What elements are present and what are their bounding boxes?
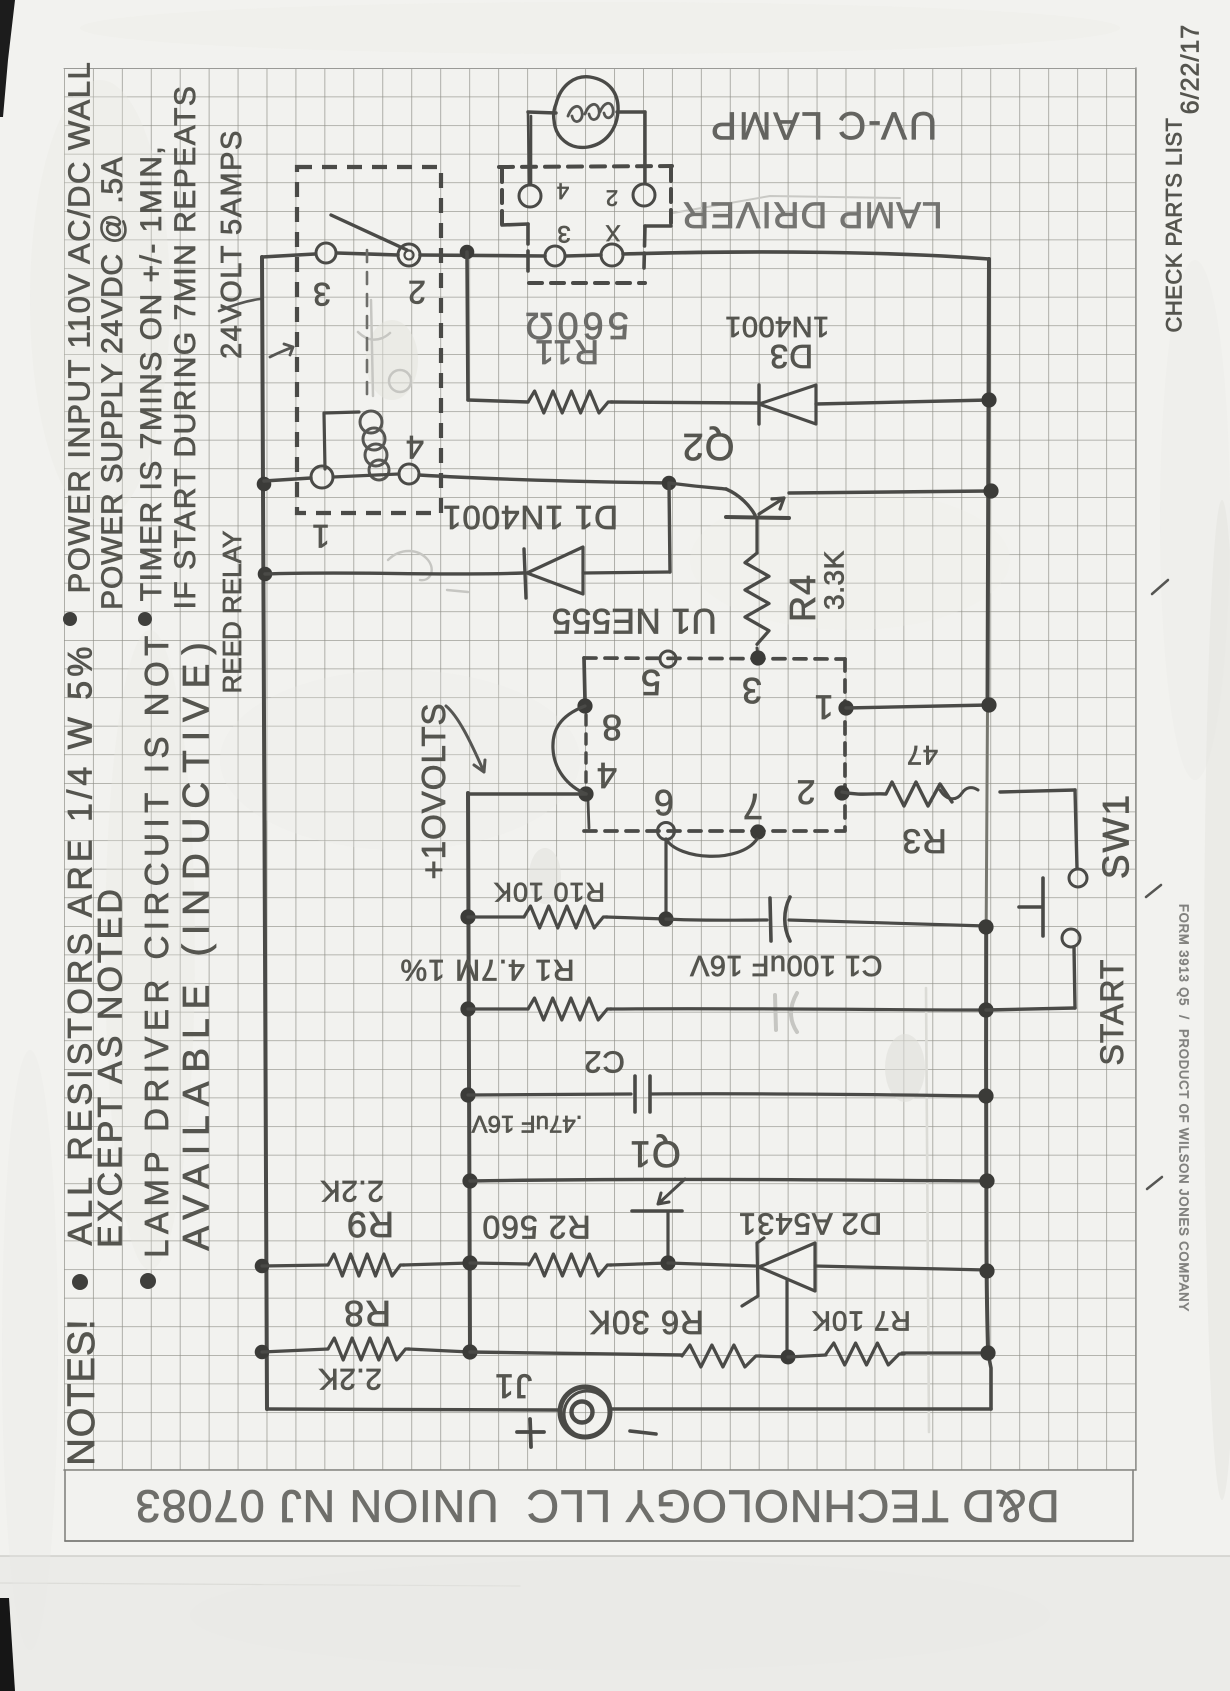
wire right rail vertical middle xyxy=(986,708,987,922)
svg-text:2.2K: 2.2K xyxy=(320,1174,384,1207)
svg-text:IF START DURING 7MIN REPEATS: IF START DURING 7MIN REPEATS xyxy=(169,85,202,610)
lamp driver box bottom edge xyxy=(529,281,645,285)
svg-text:R1 4.7M 1%: R1 4.7M 1% xyxy=(399,953,574,986)
wire D1 riser xyxy=(669,483,670,572)
diode D1 cathode bar xyxy=(524,549,526,598)
wire Q2 to R4 xyxy=(755,519,758,553)
lamp driver box top edge xyxy=(499,166,672,167)
wire top rail segment b xyxy=(337,253,398,255)
transistor Q2 collector curve xyxy=(726,489,755,515)
IC U1 box top edge xyxy=(584,658,845,659)
IC U1 box left edge upper xyxy=(584,658,585,700)
junction dot C1 row xyxy=(658,911,673,926)
reed relay coil bracket xyxy=(324,412,359,469)
wire J1 row right xyxy=(611,1407,991,1410)
wire +10V corner to 555 xyxy=(468,792,586,796)
note bullet power input xyxy=(63,612,77,626)
wire D3 to right rail xyxy=(816,400,989,404)
resistor R6 zigzag xyxy=(682,1345,761,1367)
svg-text:X: X xyxy=(605,221,620,246)
reed relay coil pin 4 circle xyxy=(399,464,419,484)
svg-text:Q2: Q2 xyxy=(682,425,735,467)
reed relay contact 2 circle xyxy=(398,244,420,266)
svg-text:4: 4 xyxy=(406,429,424,465)
IC U1 pin 5 circle xyxy=(660,651,676,667)
lamp driver box right step xyxy=(645,224,671,228)
junction dot top mid rail xyxy=(460,245,475,260)
svg-text:AVAILABLE (INDUCTIVE): AVAILABLE (INDUCTIVE) xyxy=(176,633,217,1250)
wire C2 to right rail xyxy=(650,1094,986,1096)
capacitor C2 left plate xyxy=(633,1076,637,1112)
svg-text:C1 100uF 16V: C1 100uF 16V xyxy=(689,949,882,981)
connector J1 inner circle xyxy=(572,1402,593,1423)
IC U1 box left edge lower xyxy=(588,801,589,828)
wire R8 lead xyxy=(262,1349,328,1352)
svg-text:R10 10K: R10 10K xyxy=(493,877,605,907)
svg-text:8: 8 xyxy=(602,707,622,748)
resistor R2 zigzag xyxy=(529,1254,612,1276)
junction dot D2 ref node xyxy=(781,1350,796,1365)
svg-text:POWER SUPPLY 24VDC @ .5A: POWER SUPPLY 24VDC @ .5A xyxy=(96,156,129,610)
svg-text:1N4001: 1N4001 xyxy=(725,310,830,342)
lamp driver box left lower edge xyxy=(526,224,530,271)
wire pin1 to right rail xyxy=(846,705,989,708)
wire Q2 collector row xyxy=(789,491,989,493)
footer strip right border xyxy=(1132,1470,1134,1541)
wire top rail segment d xyxy=(566,255,601,256)
note bullet lamp driver xyxy=(140,1273,156,1289)
junction dot right rail D3 row xyxy=(981,392,996,407)
svg-text:5: 5 xyxy=(641,662,661,703)
ghost erased capacitor on R1 row xyxy=(775,993,797,1032)
wire relay row a xyxy=(264,478,311,481)
ghost diagonal near lamp driver xyxy=(673,196,900,213)
wire +10V rail vertical xyxy=(468,793,470,1352)
junction dot pin 8 node xyxy=(577,698,592,713)
svg-text:2: 2 xyxy=(408,274,426,310)
wire R11 to D3 xyxy=(611,402,757,403)
footer strip bottom border xyxy=(65,1540,1133,1542)
svg-text:R4: R4 xyxy=(782,574,823,622)
svg-text:FORM 3913 Q5 / PRODUCT OF WI: FORM 3913 Q5 / PRODUCT OF WILSON JONES C… xyxy=(1177,904,1192,1312)
svg-text:D2 A5431: D2 A5431 xyxy=(738,1207,882,1242)
svg-text:Q1: Q1 xyxy=(629,1133,680,1174)
junction dot mid rail R2 row xyxy=(462,1255,477,1270)
wire R10 lead xyxy=(468,915,524,918)
svg-text:1: 1 xyxy=(312,518,330,554)
lamp driver box left upper edge xyxy=(500,169,504,225)
black scan mark bottom-left xyxy=(0,1598,15,1691)
ghost erased vertical line xyxy=(926,988,929,1432)
svg-text:3.3K: 3.3K xyxy=(819,550,850,610)
resistor R11 zigzag xyxy=(528,391,612,413)
switch SW1 upper contact circle xyxy=(1069,869,1087,887)
capacitor C1 left plate xyxy=(770,898,771,941)
svg-text:3: 3 xyxy=(742,670,762,711)
junction dot pin 3 xyxy=(750,650,765,665)
wire to C1 xyxy=(666,919,767,920)
junction dot relay row right xyxy=(662,476,677,491)
wire SW1 drop upper xyxy=(1075,790,1077,868)
reed relay coil loops xyxy=(360,411,382,433)
wire D1 row left xyxy=(265,573,523,574)
svg-text:6/22/17: 6/22/17 xyxy=(1177,24,1205,114)
svg-text:3: 3 xyxy=(313,276,331,312)
grid area xyxy=(64,68,1136,1470)
wire top rail segment a xyxy=(262,254,315,257)
svg-text:1: 1 xyxy=(815,687,834,725)
wire relay row c xyxy=(419,475,669,483)
svg-text:TIMER IS 7MINS ON +/- 1MIN,: TIMER IS 7MINS ON +/- 1MIN, xyxy=(135,145,168,601)
junction dot mid rail R6 row xyxy=(462,1344,477,1359)
wire R8 to mid rail xyxy=(408,1349,470,1352)
scanner area below paper xyxy=(0,1556,1230,1691)
wire R11 row left xyxy=(468,400,528,402)
note bullet all resistors xyxy=(72,1274,88,1290)
wire R6-R7 link xyxy=(759,1356,788,1357)
svg-text:7: 7 xyxy=(743,786,763,827)
lamp driver pin X circle xyxy=(601,244,623,266)
svg-text:NOTES!: NOTES! xyxy=(61,1318,103,1465)
resistor R10 zigzag xyxy=(524,906,607,928)
junction dot right rail C1 row xyxy=(978,919,993,934)
svg-text:UV-C LAMP: UV-C LAMP xyxy=(709,104,937,147)
svg-text:CHECK PARTS LIST: CHECK PARTS LIST xyxy=(1162,117,1187,332)
junction dot right rail R1 row xyxy=(978,1002,993,1017)
margin tick 3 xyxy=(1147,1177,1162,1189)
svg-text:J1: J1 xyxy=(494,1366,532,1404)
capacitor C2 right plate xyxy=(648,1076,652,1112)
svg-text:R3: R3 xyxy=(901,821,946,859)
svg-text:D&D TECHNOLOGY LLC UNION NJ 0: D&D TECHNOLOGY LLC UNION NJ 07083 xyxy=(134,1481,1059,1532)
resistor R8 zigzag xyxy=(328,1338,409,1360)
wire J1 row left xyxy=(267,1409,558,1410)
label J1 plus xyxy=(517,1419,544,1447)
wire lamp left drop xyxy=(528,112,531,185)
junction dot rail C2 row xyxy=(460,1087,475,1102)
callout line from 24VOLT label xyxy=(219,299,260,311)
wire R2 lead xyxy=(470,1263,529,1264)
wire R10 to junction xyxy=(606,917,666,919)
svg-text:R6 30K: R6 30K xyxy=(588,1304,704,1341)
lamp driver pin 1 circle xyxy=(519,185,541,207)
junction dot pin 2 xyxy=(834,785,849,800)
lamp driver pin 3 circle xyxy=(545,246,565,266)
resistor R7 zigzag xyxy=(826,1343,904,1365)
switch SW1 actuator tee xyxy=(1019,878,1043,936)
wire R2 to Q1 emitter node xyxy=(610,1263,668,1265)
paper bottom edge line xyxy=(0,1555,1230,1557)
transistor Q2 emitter with arrow xyxy=(759,498,784,514)
ghost marks inside reed relay xyxy=(358,300,390,396)
wire R6 lead xyxy=(470,1352,682,1355)
footer strip left border xyxy=(64,1470,66,1541)
svg-text:R2 560: R2 560 xyxy=(481,1209,590,1245)
wire right rail bottom jog xyxy=(988,1353,991,1409)
wire R7 lead xyxy=(788,1355,826,1357)
wire R1 lead xyxy=(468,1007,528,1010)
junction dot Q1 emitter node xyxy=(660,1255,675,1270)
junction dot rail Q1 row xyxy=(462,1173,477,1188)
transistor Q1 collector arrow xyxy=(658,1179,685,1204)
svg-text:START: START xyxy=(1094,959,1130,1066)
wire R9 to mid rail xyxy=(403,1263,470,1265)
svg-text:LAMP DRIVER CIRCUIT IS NOT: LAMP DRIVER CIRCUIT IS NOT xyxy=(138,630,175,1258)
grid boundary right xyxy=(1135,68,1137,1470)
reed relay coil pin 1 circle xyxy=(311,466,333,488)
junction dot pin 1 xyxy=(838,700,853,715)
note bullet timer xyxy=(138,612,152,626)
switch SW1 lower contact circle xyxy=(1062,929,1080,947)
wire pin6 drop to C1 row xyxy=(664,839,667,917)
resistor R3 end curl xyxy=(940,788,978,799)
junction dot right rail pin1 row xyxy=(981,697,996,712)
wire lamp right drop xyxy=(643,112,646,183)
diode D3 triangle xyxy=(759,385,816,424)
wire right rail vertical lower xyxy=(986,922,988,1353)
diode D2 triangle xyxy=(759,1243,815,1291)
junction dot left rail D1 row xyxy=(258,567,273,582)
svg-text:D1 1N4001: D1 1N4001 xyxy=(442,499,618,536)
junction dot left rail R8 row xyxy=(255,1345,270,1360)
wire relay row b xyxy=(333,474,399,477)
svg-text:47: 47 xyxy=(906,740,938,770)
resistor R4 zigzag xyxy=(745,553,769,644)
svg-text:C2: C2 xyxy=(583,1045,625,1080)
paper crease line xyxy=(0,1583,520,1586)
capacitor C1 right plate xyxy=(785,897,790,941)
transistor Q2 base bar xyxy=(726,517,789,518)
smudge mid xyxy=(529,848,561,904)
wire C2 lead xyxy=(468,1094,631,1095)
wire R3 to SW1 corner xyxy=(1000,790,1075,792)
junction dot right rail R6 row xyxy=(980,1345,995,1360)
junction dot rail R10 row xyxy=(460,909,475,924)
junction dot pin 4 node xyxy=(578,786,593,801)
svg-text:+1OVOLTS: +1OVOLTS xyxy=(415,702,452,879)
lamp driver pin 2 circle xyxy=(633,184,655,206)
black scan corner top-left xyxy=(0,0,15,117)
wire top rail segment e xyxy=(623,252,989,259)
lamp UV-C bulb circle xyxy=(554,77,618,148)
margin tick 1 xyxy=(1152,580,1168,594)
resistor R1 zigzag xyxy=(528,998,611,1020)
svg-text:3: 3 xyxy=(557,220,570,247)
svg-text:6: 6 xyxy=(654,782,674,823)
arrow from REED RELAY to relay box xyxy=(270,344,293,357)
wire SW1 drop lower xyxy=(1074,947,1075,1008)
svg-text:R8: R8 xyxy=(343,1293,391,1334)
resistor R9 zigzag xyxy=(328,1254,404,1276)
wire lamp right stub xyxy=(617,110,645,113)
svg-text:SW1: SW1 xyxy=(1096,793,1137,879)
wire SW1 return to rail xyxy=(986,1008,1075,1010)
svg-text:R11: R11 xyxy=(533,332,599,370)
diode D3 cathode bar xyxy=(757,385,760,424)
wire left rail vertical xyxy=(262,257,267,1409)
svg-text:24VOLT 5AMPS: 24VOLT 5AMPS xyxy=(216,129,248,359)
junction dot left rail relay row xyxy=(257,477,272,492)
svg-text:U1 NE555: U1 NE555 xyxy=(551,601,716,640)
reed relay divider dashes xyxy=(366,250,369,398)
wire top rail segment c xyxy=(420,255,545,256)
svg-text:R9: R9 xyxy=(346,1204,394,1245)
wire D1 to corner xyxy=(583,572,670,573)
junction dot right rail Q2 row xyxy=(983,483,998,498)
reed relay box outline xyxy=(297,167,441,513)
wire R1 to right rail xyxy=(610,1009,986,1010)
svg-text:.47uF 16V: .47uF 16V xyxy=(472,1110,583,1137)
svg-text:2.2K: 2.2K xyxy=(318,1362,382,1395)
reed relay contact 3 circle xyxy=(316,243,336,263)
lamp driver box right upper edge xyxy=(669,168,673,225)
ghost marks near D1 row xyxy=(388,551,468,592)
junction dot rail R1 row xyxy=(460,1001,475,1016)
smudge relay xyxy=(366,320,418,400)
svg-text:D3: D3 xyxy=(769,338,813,375)
IC U1 box right edge xyxy=(843,659,847,830)
junction dot pin 7 xyxy=(750,824,765,839)
wire right rail vertical upper xyxy=(988,259,990,708)
wire Q1 collector row xyxy=(470,1179,987,1181)
svg-text:LAMP DRIVER: LAMP DRIVER xyxy=(681,194,942,235)
svg-text:4: 4 xyxy=(597,755,617,796)
wire mid vertical upper (to R11 row) xyxy=(467,252,468,400)
lamp driver box left step xyxy=(502,224,528,225)
svg-text:REED RELAY: REED RELAY xyxy=(217,531,247,694)
smudge near C1 xyxy=(885,1034,925,1102)
IC U1 pin 6 circle xyxy=(658,823,675,840)
wire C1 to right rail xyxy=(789,920,986,926)
transistor Q1 base bar xyxy=(632,1209,682,1213)
wire D2 to right rail xyxy=(815,1266,987,1270)
lamp driver box right lower edge xyxy=(644,226,645,268)
svg-text:4: 4 xyxy=(557,179,569,204)
wire Q2 base lead xyxy=(669,483,726,489)
IC U1 box left edge dashes xyxy=(584,715,587,786)
arrow 10V pointer xyxy=(446,706,485,772)
wire R7 to right rail xyxy=(902,1351,988,1354)
svg-text:2: 2 xyxy=(797,772,816,810)
grid boundary top xyxy=(64,68,1136,70)
svg-text:EXCEPT AS NOTED: EXCEPT AS NOTED xyxy=(92,886,130,1248)
transistor Q1 emitter drop xyxy=(666,1212,669,1261)
wire R9 lead xyxy=(262,1265,328,1266)
wire lamp left stub xyxy=(528,112,556,113)
junction dot right rail Q1 row xyxy=(979,1173,994,1188)
wire D2 reference drop xyxy=(785,1280,788,1353)
label J1 minus xyxy=(630,1431,656,1434)
IC U1 box bottom edge xyxy=(584,829,845,833)
margin tick 2 xyxy=(1146,885,1161,897)
resistor R3 zigzag xyxy=(842,782,952,806)
junction dot right rail R2 row xyxy=(979,1263,994,1278)
grid boundary bottom / footer strip top xyxy=(64,1469,1136,1471)
wire R4 to pin3 xyxy=(757,648,758,656)
lamp filament squiggle xyxy=(568,103,613,121)
wire pins 8-4 outer arc xyxy=(553,706,586,794)
wire to D2 xyxy=(668,1263,755,1266)
junction dot left rail R9 row xyxy=(255,1259,270,1274)
svg-text:2: 2 xyxy=(606,186,618,211)
svg-text:POWER INPUT 110V AC/DC WALL: POWER INPUT 110V AC/DC WALL xyxy=(62,61,97,594)
wire pin6-pin7 sag xyxy=(666,839,757,856)
junction dot right rail C2 row xyxy=(978,1088,993,1103)
reed relay switch lever xyxy=(331,215,407,250)
diode D2 cathode bar with zener tails xyxy=(742,1238,764,1306)
svg-text:R7 10K: R7 10K xyxy=(811,1306,910,1337)
connector J1 outer circle xyxy=(560,1387,610,1437)
diode D1 triangle xyxy=(527,547,583,594)
